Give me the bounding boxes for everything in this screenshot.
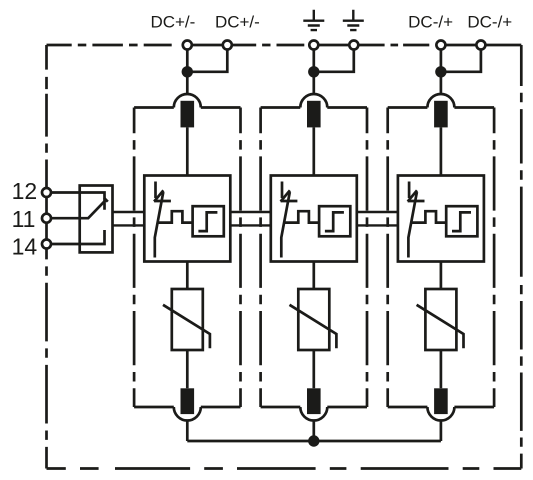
svg-text:DC+/-: DC+/- xyxy=(150,13,195,32)
svg-text:DC-/+: DC-/+ xyxy=(467,13,512,32)
svg-text:DC+/-: DC+/- xyxy=(215,13,260,32)
svg-text:DC-/+: DC-/+ xyxy=(408,13,453,32)
svg-text:12: 12 xyxy=(12,178,38,204)
svg-text:14: 14 xyxy=(12,234,38,260)
svg-text:11: 11 xyxy=(12,206,36,232)
